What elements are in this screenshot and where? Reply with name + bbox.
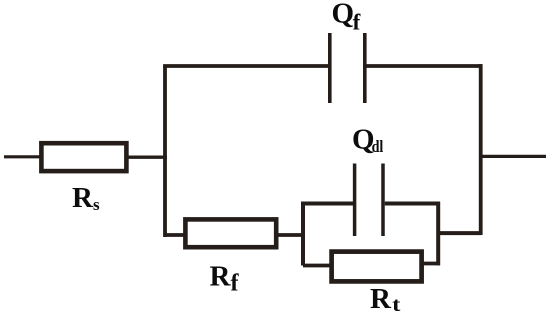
wire sub-network left vertical: [301, 202, 305, 266]
wire sub-network top right segment: [385, 202, 440, 206]
wire sub-network top left segment: [301, 202, 355, 206]
capacitor Qdl left plate: [353, 164, 357, 237]
wire Rs to node A: [126, 155, 167, 158]
wire top branch right segment: [367, 64, 483, 68]
resistor Rs: [41, 143, 126, 171]
wire top branch left segment: [163, 64, 330, 68]
wire bottom branch left segment: [164, 233, 187, 237]
wire Rt to sub-network right vertical: [420, 262, 440, 266]
capacitor Qf right plate: [363, 33, 367, 103]
capacitor Qdl right plate: [381, 164, 385, 237]
wire Rf to sub-network node: [274, 233, 305, 237]
wire output lead: [482, 155, 546, 158]
wire left vertical branch: [163, 66, 167, 237]
wire sub-network to node B: [438, 231, 481, 235]
resistor Rf: [185, 219, 276, 247]
wire sub-network right vertical: [436, 202, 440, 266]
wire right vertical branch: [479, 64, 483, 235]
capacitor Qf left plate: [328, 33, 332, 103]
resistor Rt: [332, 252, 422, 282]
wire sub-network bottom segment: [303, 264, 331, 268]
wire input lead: [4, 155, 41, 158]
